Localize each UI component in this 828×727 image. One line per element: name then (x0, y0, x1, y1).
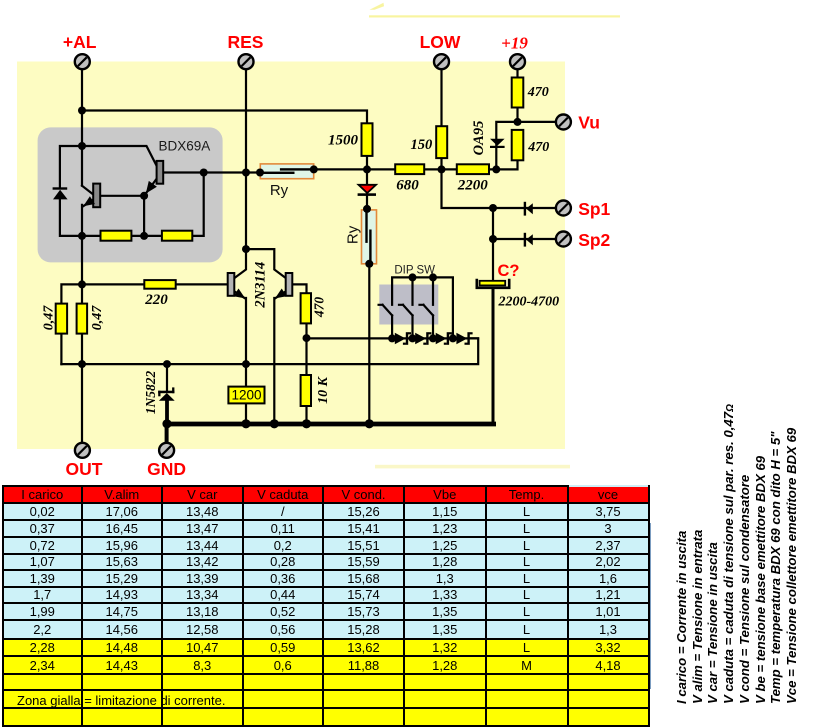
value box 1200 (228, 387, 264, 404)
node Sp1 branch (489, 204, 497, 212)
wire 220 base line (82, 283, 228, 285)
resistor 2200 (457, 164, 489, 174)
svg-text:470: 470 (527, 140, 549, 155)
legend rotated lines (674, 531, 689, 704)
node 470/10K junction (303, 334, 311, 342)
TABLE (2, 485, 650, 727)
terminal +19 (510, 54, 525, 69)
wire capacitor bottom lead (492, 289, 495, 422)
node relay right (310, 165, 318, 173)
transistor 2N3114 left emitter arrow (234, 289, 246, 299)
svg-text:1N5822: 1N5822 (143, 371, 158, 415)
svg-text:470: 470 (527, 85, 549, 100)
node DIP rail 3 (429, 273, 437, 281)
node 1500 bottom (363, 165, 371, 173)
node bus 10K (302, 419, 311, 428)
node diode row 1 (388, 334, 396, 342)
node relay bottom (365, 260, 373, 268)
terminal LOW (434, 54, 449, 69)
relay Ry vertical (362, 210, 377, 264)
node A top rail (78, 107, 86, 115)
top yellow strip (369, 15, 620, 17)
wire DIP switch blades (379, 305, 433, 339)
svg-text:2200: 2200 (457, 178, 489, 194)
terminal OUT (75, 443, 90, 458)
wire top rail to 1500 (82, 111, 367, 124)
transistor 2N3114 right base plate (286, 273, 293, 296)
transistor BDX small emitter arrow (83, 196, 95, 206)
svg-text:BDX69A: BDX69A (159, 139, 211, 154)
svg-text:C?: C? (498, 262, 520, 280)
node RES crossing (242, 169, 250, 177)
wire OA95 branch and Vu line (496, 122, 554, 169)
terminal RES (239, 54, 254, 69)
terminal GND (159, 443, 174, 458)
diode BDX internal (53, 187, 68, 199)
node bus left emitter (241, 419, 250, 428)
wire 2N3114 right base to 470 (292, 284, 306, 293)
node BDX bottom mid (140, 232, 148, 240)
diode OA95 (490, 139, 505, 148)
diode D4 limiter (456, 332, 472, 345)
node BDX base out (200, 169, 208, 177)
node diode row 2 (409, 334, 417, 342)
resistor 220 (144, 280, 175, 289)
svg-text:1200: 1200 (231, 388, 261, 403)
transistor BDX big emitter arrow (146, 181, 157, 194)
svg-text:LOW: LOW (420, 32, 461, 52)
svg-text:150: 150 (410, 137, 432, 153)
node 680/150 junction (438, 165, 446, 173)
wire RES vertical (245, 70, 247, 249)
top yellow wedge (370, 3, 385, 10)
resistor 0,47 right (77, 304, 88, 334)
terminal Vu (556, 115, 571, 130)
svg-text:2N3114: 2N3114 (253, 262, 269, 309)
resistor 470 lower (301, 293, 311, 323)
wire main line right (relay to 470) (314, 160, 518, 169)
wire +AL/OUT vertical lower (81, 205, 83, 442)
node relay top (363, 205, 371, 213)
wire capacitor top lead (492, 239, 494, 280)
DIP SW grey box (379, 285, 438, 325)
node BDX darlington (140, 192, 148, 200)
resistor 470 top (512, 78, 524, 108)
node diode row 3 (429, 334, 437, 342)
terminal Sp2 (556, 232, 571, 247)
node bus GND (162, 419, 171, 428)
node 2200/OA95 junction (492, 165, 500, 173)
wire 2N3114 left emitter (234, 291, 246, 424)
wire 2N3114 collector link (246, 249, 286, 278)
svg-text:Ry: Ry (345, 225, 362, 244)
svg-text:0,47: 0,47 (90, 305, 105, 331)
blue artifact line right of vce column (650, 523, 652, 689)
wire relay Ry bottom lead (368, 264, 370, 424)
wire 1N5822 cathode lead thick (165, 400, 169, 422)
diode 1N5822 schottky (158, 387, 175, 400)
svg-text:470: 470 (312, 297, 327, 319)
wire 0,47 left loop (61, 284, 82, 364)
svg-text:Ry: Ry (270, 182, 289, 199)
wire +19 vertical (516, 70, 518, 122)
svg-text:1500: 1500 (328, 133, 359, 149)
transistor 2N3114 right emitter arrow (275, 289, 287, 299)
svg-text:OA95: OA95 (471, 121, 487, 156)
svg-text:0,47: 0,47 (42, 305, 57, 331)
svg-text:Vu: Vu (578, 112, 600, 132)
resistor 1500 (362, 123, 373, 156)
wire 2N3114 left collector diagonal (235, 249, 247, 278)
resistor 10K (301, 375, 311, 406)
diode Sp1 (524, 202, 533, 216)
wire BDX small collector diagonal (82, 186, 93, 195)
capacitor C? (477, 279, 509, 288)
wire diode row (307, 337, 479, 339)
svg-text:680: 680 (396, 178, 419, 194)
svg-text:Sp2: Sp2 (578, 230, 610, 250)
node relay left (256, 169, 264, 177)
svg-text:220: 220 (144, 292, 168, 308)
diode Sp2 (524, 233, 533, 247)
bottom yellow strip (375, 465, 570, 469)
relay Ry horizontal (260, 164, 313, 179)
wire BDX small emitter diagonal (83, 200, 93, 206)
node 2N3114 collectors (242, 245, 250, 253)
node Sp2 branch (489, 235, 497, 243)
GND stub (165, 424, 169, 442)
resistor 0,47 left (56, 304, 67, 334)
wire BDX collector rail (82, 146, 158, 168)
zona gialla note (17, 693, 317, 708)
wire 2N3114 right emitter (274, 291, 286, 424)
diode red (relay) (358, 185, 376, 196)
node sense emitter (242, 360, 250, 368)
node sense line out (78, 360, 86, 368)
node bus right emitter (270, 419, 279, 428)
wire Sp branch (442, 169, 555, 239)
wire 470 to 10K vertical (305, 323, 307, 424)
node BDX bottom left (78, 232, 86, 240)
diode D2 limiter (415, 332, 431, 345)
terminal Sp1 (556, 201, 571, 216)
svg-text:10 K: 10 K (316, 375, 331, 404)
svg-text:2200-4700: 2200-4700 (498, 295, 560, 310)
resistor 470 mid (512, 130, 524, 160)
node BDX collector (78, 142, 86, 150)
wire DIP top rail (392, 277, 453, 338)
wire 1500 to relay vertical (366, 156, 368, 209)
wire DIP switch 2 upper lead (411, 277, 413, 304)
node sense 1N5822 (163, 360, 171, 368)
transistor 2N3114 left base plate (228, 273, 235, 296)
wire main line left (base BDX to relay) (163, 171, 260, 173)
wire BDX small base (100, 196, 144, 236)
pale strip above vce header (569, 485, 648, 487)
resistor BDX internal left (101, 231, 132, 241)
resistor BDX internal right (162, 231, 192, 241)
wire BDX bottom rail (82, 173, 204, 236)
node Vu junction (514, 118, 522, 126)
terminal +AL (75, 54, 90, 69)
BDX69A grey box (38, 127, 223, 262)
ground bus thick (165, 422, 496, 427)
resistor 150 (436, 126, 447, 158)
svg-text:OUT: OUT (66, 459, 103, 479)
wire BDX big emitter diagonal (146, 178, 158, 194)
schematic yellow background (17, 62, 565, 450)
svg-text:GND: GND (147, 459, 186, 479)
resistor 680 (395, 164, 424, 174)
svg-text:+AL: +AL (63, 32, 97, 52)
svg-text:DIP SW: DIP SW (394, 264, 435, 276)
node DIP rail 2 (409, 273, 417, 281)
node base line left (78, 280, 86, 288)
wire 1N5822 leads (166, 364, 168, 391)
node diode row 4 (449, 334, 457, 342)
svg-text:RES: RES (228, 32, 264, 52)
svg-text:+19: +19 (501, 34, 528, 53)
wire current-sense return line (61, 338, 478, 364)
svg-text:Sp1: Sp1 (578, 199, 610, 219)
transistor BDX big base plate (157, 161, 164, 184)
wire BDX diode branch (60, 146, 82, 236)
diode D3 limiter (436, 332, 452, 345)
wire LOW vertical (440, 70, 442, 170)
wire DIP switch 3 upper lead (432, 277, 434, 304)
transistor BDX small base plate (93, 184, 100, 208)
node bus relay (365, 419, 374, 428)
diode D1 limiter (395, 332, 411, 345)
wire +AL vertical upper (81, 70, 83, 186)
